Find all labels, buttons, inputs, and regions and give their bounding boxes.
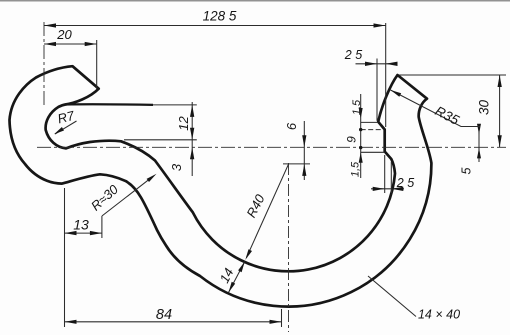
svg-text:128 5: 128 5 [203, 9, 237, 24]
extension line: right arm upper corner ref [361, 121, 379, 123]
svg-text:6: 6 [284, 122, 299, 130]
svg-text:30: 30 [477, 100, 492, 116]
extension line: 13 right ref [101, 216, 103, 238]
R40 centre mark [283, 163, 310, 165]
extension line: tip end [96, 40, 98, 89]
dimension 30 [499, 75, 501, 147]
dimension 20 [44, 43, 97, 45]
dimension 2 5 bottom [371, 188, 404, 190]
svg-text:5: 5 [460, 167, 474, 174]
dimensions 1,5 / 9 / 1,5 [360, 94, 362, 178]
svg-text:2 5: 2 5 [344, 48, 362, 62]
scan top border [0, 0, 510, 2]
dimension 6 [303, 121, 305, 180]
dimension 128 5 [44, 25, 386, 27]
svg-text:1,5: 1,5 [350, 161, 362, 177]
dimension 13 [65, 232, 102, 234]
extension line: 12 bottom / 3 top ref [124, 139, 197, 141]
svg-text:84: 84 [156, 307, 172, 323]
svg-text:2 5: 2 5 [396, 176, 414, 190]
horizontal axis centerline [37, 146, 506, 148]
leader R7 [55, 121, 77, 134]
svg-text:1,5: 1,5 [351, 99, 363, 115]
extension line: 2 5 bottom right ref [390, 162, 392, 193]
extension line: arm top 12 ref [153, 104, 197, 106]
leader R40 [247, 164, 289, 257]
leader 14 x 40 section size [368, 276, 416, 317]
hook vertical centerline [43, 22, 45, 107]
extension line: arm end upper (128 5 right ref) [385, 23, 387, 127]
leader R35 [391, 90, 481, 127]
extension line: 2 5 bottom left ref [384, 155, 386, 193]
dimension 12 and 3 [191, 102, 193, 176]
svg-text:14 × 40: 14 × 40 [418, 308, 460, 322]
extension line: 13/84 left ref [64, 188, 66, 327]
arm top edge [65, 103, 153, 106]
svg-text:12: 12 [176, 116, 191, 131]
dimension 14 strip thickness [229, 262, 245, 293]
dimension 5 [478, 128, 480, 162]
svg-text:9: 9 [345, 136, 359, 143]
svg-text:13: 13 [73, 217, 89, 233]
extension line: beak top level [399, 74, 506, 76]
svg-text:20: 20 [56, 27, 72, 42]
leader R approx 30 [102, 179, 150, 216]
svg-text:3: 3 [169, 163, 184, 171]
extension line: 2 5 top left ref [376, 59, 378, 121]
extension line: right arm mid step ref [361, 129, 384, 131]
vertical centerline of R40 [288, 163, 290, 332]
extension line: 84 right ref [281, 309, 283, 327]
extension line: right arm bottom step ref [361, 151, 385, 153]
dimension 84 [65, 321, 282, 323]
dimension 2 5 top [356, 63, 398, 65]
part outline (closed bent-strip hook profile) [10, 66, 432, 306]
